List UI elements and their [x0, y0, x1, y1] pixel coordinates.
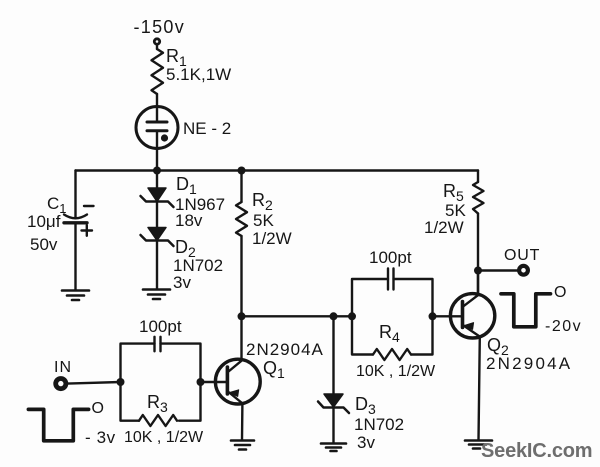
- terminal OUT: [519, 266, 528, 275]
- svg-text:-20v: -20v: [545, 318, 582, 335]
- wire: [156, 45, 158, 50]
- ground: [62, 291, 89, 301]
- wire emitter Q1: [241, 404, 244, 441]
- resistor R4: [352, 316, 433, 360]
- junction: [117, 378, 125, 386]
- neon lamp NE-2: [136, 107, 178, 149]
- svg-text:1N702: 1N702: [354, 415, 404, 434]
- junction: [153, 167, 161, 175]
- svg-text:3v: 3v: [173, 273, 191, 292]
- junction: [429, 312, 437, 320]
- waveform output 0 to -20v: [501, 294, 551, 327]
- svg-text:3v: 3v: [357, 433, 375, 452]
- label plus: [82, 225, 93, 236]
- bus wire: [76, 169, 479, 171]
- svg-text:100pt: 100pt: [369, 248, 412, 267]
- svg-text:OUT: OUT: [504, 247, 540, 264]
- wire: [332, 408, 334, 443]
- svg-text:2N2904A: 2N2904A: [246, 340, 324, 359]
- zener diode D1: [141, 188, 174, 207]
- terminal IN: [56, 379, 66, 389]
- resistor R2: [236, 202, 247, 236]
- svg-text:5K: 5K: [253, 211, 274, 230]
- junction: [238, 312, 246, 320]
- svg-text:5.1K,1W: 5.1K,1W: [166, 65, 231, 84]
- ground: [143, 290, 170, 300]
- wire: [332, 316, 334, 394]
- wire: [478, 269, 519, 271]
- svg-text:R3: R3: [147, 392, 168, 415]
- svg-text:IN: IN: [54, 359, 72, 376]
- wire: [240, 171, 242, 203]
- power terminal -150v: [154, 39, 159, 44]
- zener diode D2: [141, 228, 174, 247]
- wire: [240, 236, 242, 360]
- junction OUT node: [474, 267, 482, 275]
- wire: [67, 382, 120, 384]
- svg-text:O: O: [554, 284, 566, 301]
- svg-text:1/2W: 1/2W: [252, 229, 292, 248]
- junction: [330, 312, 338, 320]
- capacitor 100pt (R4 block): [352, 269, 433, 317]
- wire: [156, 242, 158, 289]
- wire: [156, 149, 158, 171]
- svg-text:10K , 1/2W: 10K , 1/2W: [356, 363, 436, 380]
- svg-text:O: O: [92, 400, 104, 417]
- svg-text:- 3v: - 3v: [85, 428, 116, 447]
- waveform input 0 to -3v: [28, 409, 88, 440]
- svg-text:R4: R4: [379, 322, 400, 345]
- svg-text:2N2904A: 2N2904A: [486, 354, 572, 373]
- label minus: [84, 205, 94, 207]
- wire: [74, 223, 76, 290]
- wire emitter Q2: [479, 337, 480, 440]
- ground: [321, 444, 346, 452]
- svg-text:50v: 50v: [30, 235, 58, 254]
- wire: [156, 94, 158, 107]
- resistor R3: [121, 382, 201, 426]
- junction: [197, 378, 205, 386]
- svg-text:10μf: 10μf: [27, 212, 61, 231]
- svg-text:R2: R2: [252, 190, 273, 213]
- wire: [156, 203, 158, 227]
- ground: [231, 441, 254, 450]
- wire: [477, 214, 479, 296]
- svg-text:18v: 18v: [175, 211, 203, 230]
- wire: [74, 171, 76, 218]
- transistor Q2: [433, 294, 495, 338]
- svg-text:NE - 2: NE - 2: [183, 119, 231, 138]
- transistor Q1: [201, 359, 261, 404]
- ground: [465, 441, 492, 449]
- svg-text:100pt: 100pt: [139, 317, 182, 336]
- svg-text:D1: D1: [176, 174, 197, 197]
- wire node to R4 block: [242, 315, 353, 317]
- resistor R1: [152, 49, 164, 94]
- svg-text:D3: D3: [355, 394, 376, 417]
- wire collector Q2: [477, 271, 479, 296]
- svg-text:SeekIC.com: SeekIC.com: [481, 440, 592, 462]
- junction: [238, 167, 246, 175]
- resistor R5: [473, 171, 484, 214]
- junction: [348, 312, 356, 320]
- svg-text:1/2W: 1/2W: [424, 218, 464, 237]
- capacitor C1: [64, 215, 87, 223]
- wire: [156, 171, 158, 189]
- svg-text:Q1: Q1: [263, 358, 285, 381]
- svg-text:-150v: -150v: [134, 17, 186, 37]
- capacitor 100pt (R3 block): [121, 337, 201, 382]
- svg-text:10K , 1/2W: 10K , 1/2W: [124, 429, 204, 446]
- zener diode D3: [318, 394, 349, 413]
